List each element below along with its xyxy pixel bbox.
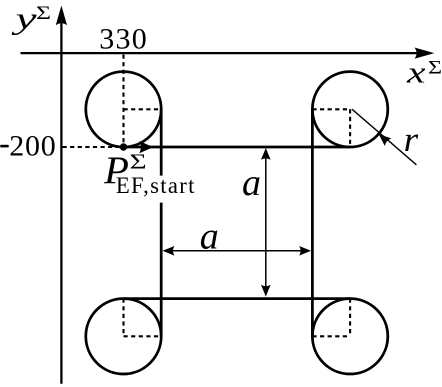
radius annotation line	[352, 109, 416, 165]
wire bottom side	[124, 297, 351, 300]
svg-text:Σ: Σ	[428, 58, 442, 79]
dashed radius corner bottom-left vertical	[122, 299, 124, 337]
dashed coordinate line x=330	[122, 55, 124, 148]
circle top-right	[312, 72, 387, 147]
dimension a horizontal left arrowhead	[163, 246, 175, 256]
dashed coordinate line y=-200	[63, 146, 120, 148]
dashed radius corner bottom-left horizontal	[124, 335, 162, 337]
wire left side	[160, 109, 163, 336]
radius arrowhead	[375, 130, 391, 146]
dashed radius corner top-right vertical	[349, 109, 351, 147]
svg-text:EF,start: EF,start	[116, 173, 196, 198]
label -200 minus sign	[0, 145, 8, 148]
svg-text:x: x	[406, 54, 426, 89]
dashed radius corner bottom-right horizontal	[312, 335, 350, 337]
wire right side	[311, 109, 314, 336]
x-axis arrowhead	[415, 47, 435, 58]
start point dot	[120, 143, 127, 150]
dimension a vertical bottom arrowhead	[261, 285, 271, 297]
dashed radius corner top-right horizontal	[312, 108, 350, 110]
start direction arrowhead	[139, 141, 153, 153]
circle top-left	[86, 72, 161, 147]
circle bottom-left	[86, 299, 161, 374]
dimension a horizontal right arrowhead	[299, 246, 311, 256]
svg-text:330: 330	[99, 23, 148, 56]
wire top side	[124, 146, 351, 149]
svg-text:a: a	[242, 162, 261, 204]
svg-text:y: y	[11, 1, 37, 36]
y-axis	[60, 18, 62, 384]
x-axis	[21, 52, 429, 54]
dimension a vertical line	[265, 150, 267, 295]
dimension a vertical top arrowhead	[261, 148, 271, 160]
svg-text:Σ: Σ	[130, 150, 147, 174]
svg-text:a: a	[200, 215, 219, 257]
circle bottom-right	[312, 299, 387, 374]
y-axis arrowhead	[56, 6, 67, 26]
dashed radius corner bottom-right vertical	[349, 299, 351, 337]
dashed radius corner top-left	[124, 108, 162, 110]
svg-text:r: r	[404, 120, 419, 159]
svg-text:200: 200	[9, 129, 56, 162]
dimension a horizontal line	[164, 250, 310, 252]
white mask behind P label	[112, 176, 198, 203]
svg-text:Σ: Σ	[36, 3, 51, 24]
